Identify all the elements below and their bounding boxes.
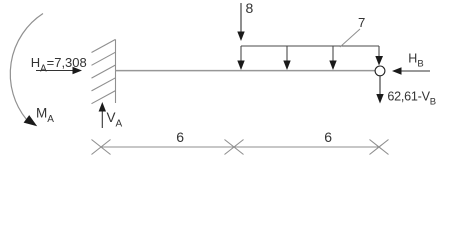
dimension tick left bbox=[92, 140, 111, 155]
force arrow H_B bbox=[392, 67, 430, 74]
distributed load q top line bbox=[241, 45, 379, 47]
svg-text:7: 7 bbox=[358, 15, 365, 30]
svg-text:MA: MA bbox=[36, 106, 54, 126]
distributed load arrow 1 bbox=[237, 46, 244, 70]
svg-text:HB: HB bbox=[408, 51, 423, 69]
beam bbox=[116, 70, 376, 72]
distributed load arrow 3 bbox=[329, 46, 336, 70]
fixed support wall bbox=[92, 39, 116, 103]
pin circle at B bbox=[375, 66, 385, 76]
leader line for label 7 bbox=[340, 29, 360, 47]
svg-text:8: 8 bbox=[246, 0, 254, 16]
distributed load arrow 4 at B bbox=[375, 46, 383, 66]
reaction arrow V_A bbox=[99, 102, 106, 128]
svg-text:VA: VA bbox=[107, 110, 123, 130]
dimension tick middle bbox=[225, 140, 244, 155]
distributed load arrow 2 bbox=[283, 46, 290, 70]
force arrow H_A bbox=[36, 67, 82, 74]
svg-text:6: 6 bbox=[176, 129, 184, 145]
svg-text:6: 6 bbox=[324, 129, 332, 145]
moment arc M_A bbox=[10, 14, 43, 127]
reaction arrow 62,61-V_B bbox=[376, 76, 383, 104]
force arrow 8 bbox=[237, 3, 244, 41]
dimension tick right bbox=[370, 140, 389, 155]
svg-text:62,61-VB: 62,61-VB bbox=[387, 89, 436, 107]
dimension line bbox=[101, 146, 379, 148]
